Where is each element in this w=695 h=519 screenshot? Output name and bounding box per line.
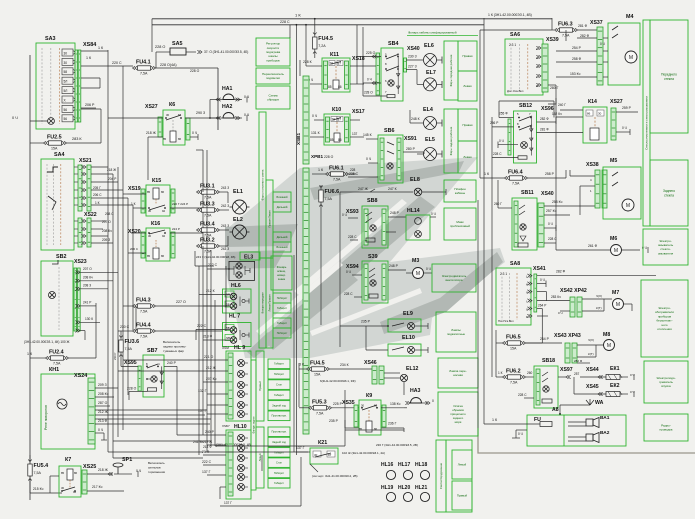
fuse FU5.3 — [314, 406, 327, 410]
svg-text:0 Ч: 0 Ч — [312, 114, 317, 118]
svg-text:ВА2: ВА2 — [600, 430, 610, 436]
wire SB2 208Kч — [81, 280, 114, 282]
connector XS84 — [75, 50, 78, 122]
wire K21 137Г — [296, 451, 310, 453]
wire right bus x492 — [491, 117, 493, 377]
wire SA4 206C — [91, 189, 123, 191]
fuse FU6.5 — [508, 341, 521, 345]
svg-text:Реле поворотов: Реле поворотов — [44, 405, 48, 430]
svg-text:208 Кч: 208 Кч — [102, 229, 112, 233]
wire k6 drop x203 — [202, 150, 204, 192]
wire XS43-M8 — [577, 344, 603, 346]
svg-text:Поборот: Поборот — [274, 471, 285, 475]
svg-text:131 К: 131 К — [311, 131, 320, 135]
svg-text:85: 85 — [359, 427, 363, 431]
fuse FU6.2 — [508, 375, 521, 379]
svg-text:0 Ч: 0 Ч — [136, 469, 141, 473]
fuse FU4.4 — [138, 329, 151, 333]
svg-text:213 Ф: 213 Ф — [98, 419, 108, 423]
fuse FU3.3 — [202, 208, 215, 212]
svg-text:Левый: Левый — [458, 463, 467, 467]
svg-text:К21: К21 — [318, 440, 327, 446]
switch SB8 — [362, 206, 388, 248]
svg-text:НА2: НА2 — [222, 104, 232, 110]
legend fan motor — [432, 264, 476, 292]
legend beam boxes — [273, 192, 291, 202]
svg-text:256 Р: 256 Р — [490, 121, 498, 125]
svg-text:V: V — [526, 291, 528, 295]
wire K7 218Ж — [87, 473, 113, 475]
relay K16 — [146, 228, 170, 261]
wire SA4 218Ж — [91, 166, 108, 168]
contact block SA3 — [62, 49, 73, 56]
wire HL10 20Ф — [203, 454, 226, 456]
wire K10 left 0Ч — [314, 119, 324, 121]
relay K10 — [324, 114, 350, 145]
wire speakers — [568, 421, 586, 423]
svg-text:7,5А: 7,5А — [325, 197, 333, 201]
wire K16 left — [131, 232, 146, 234]
wire SB12 287Ф — [537, 121, 557, 123]
svg-text:XS95: XS95 — [124, 360, 137, 366]
fuse FU2.5 — [49, 141, 62, 145]
svg-text:ЕК2: ЕК2 — [610, 383, 620, 389]
svg-text:XS93: XS93 — [346, 209, 359, 215]
wire SB2 207O — [81, 271, 119, 273]
wire SB11 0Ч — [544, 227, 556, 229]
svg-text:Включатель: Включатель — [163, 340, 181, 344]
svg-text:XS84: XS84 — [83, 42, 96, 48]
svg-text:204 Р: 204 Р — [108, 177, 116, 181]
wire FU2.4 left 1K — [30, 357, 46, 359]
wire SB7 to HL10 link — [176, 400, 178, 435]
svg-text:EL10: EL10 — [402, 335, 415, 341]
svg-text:FU4.5: FU4.5 — [310, 361, 325, 367]
svg-text:FU6.3: FU6.3 — [558, 22, 573, 28]
svg-text:XS40: XS40 — [407, 46, 420, 52]
svg-text:215 Кч: 215 Кч — [33, 487, 44, 491]
svg-text:EL9: EL9 — [403, 311, 413, 317]
svg-text:241 Вх: 241 Вх — [193, 440, 204, 444]
svg-text:Левая: Левая — [463, 84, 472, 88]
wire K6 feed from bus — [108, 117, 140, 119]
switch arm SA4 — [48, 196, 56, 210]
lamp block HL7 — [223, 289, 252, 313]
svg-text:217 Кч: 217 Кч — [92, 485, 103, 489]
svg-text:FU4.4: FU4.4 — [136, 323, 151, 329]
wire K21 137Г bottom loop — [220, 505, 301, 507]
wire HL9 221O — [203, 359, 228, 361]
wire SA4 207O — [91, 228, 103, 230]
wire K11 left 220K — [306, 65, 322, 67]
svg-text:218 Ж: 218 Ж — [146, 131, 157, 135]
legend strip beside license box — [259, 258, 266, 348]
svg-text:вентилятора: вентилятора — [445, 278, 462, 282]
svg-text:282 Ф: 282 Ф — [574, 359, 583, 363]
svg-text:30: 30 — [148, 234, 152, 238]
wire HL8 feed link — [195, 329, 197, 340]
legend dashboard box — [256, 86, 290, 109]
svg-text:228 С: 228 С — [518, 393, 527, 397]
svg-text:30: 30 — [64, 61, 68, 65]
wire FU6.4 right 258P — [527, 177, 566, 179]
wire XS41 V jog — [537, 291, 547, 293]
svg-text:FU6.2: FU6.2 — [506, 369, 521, 375]
svg-text:FU5.4: FU5.4 — [34, 463, 49, 469]
svg-text:SB12: SB12 — [519, 103, 532, 109]
switch SB12 — [514, 111, 537, 163]
svg-text:85: 85 — [147, 254, 151, 258]
svg-text:Пск.Пск.Вкл: Пск.Пск.Вкл — [498, 319, 514, 323]
svg-text:XS91: XS91 — [404, 136, 417, 142]
svg-text:HL14: HL14 — [407, 208, 420, 214]
svg-text:Правая: Правая — [463, 123, 473, 127]
svg-text:255 Ф: 255 Ф — [499, 112, 508, 116]
wire hl10 feeds from left bus — [108, 451, 203, 453]
connector XS23 — [74, 268, 77, 331]
wire SA4 row6 — [91, 204, 133, 206]
wire FU4.3 left — [123, 305, 133, 307]
svg-text:ХSМ: ХSМ — [222, 346, 229, 350]
svg-text:Дальний: Дальний — [277, 235, 288, 239]
wire XS38-M5 pins — [570, 175, 595, 177]
wire XS24 0Ч — [95, 432, 104, 434]
wire XS41 D stub — [537, 315, 548, 317]
fuse FU5.4 — [28, 464, 32, 476]
wire HL7 feed link — [199, 294, 205, 296]
svg-text:261 Ф: 261 Ф — [588, 244, 598, 248]
wire right bus x478 — [477, 200, 479, 428]
svg-text:Противотум.: Противотум. — [271, 414, 286, 418]
wire XS42-M7 — [582, 298, 612, 300]
legend rear lamp strip HL10 — [256, 427, 264, 488]
svg-text:EL1: EL1 — [233, 189, 243, 195]
wire HL6 222C — [207, 268, 234, 270]
watermark emblem — [225, 157, 505, 358]
svg-text:Фары задние рабочие: Фары задние рабочие — [449, 126, 453, 155]
wire FU6.2 right 260 — [525, 376, 534, 378]
svg-text:248 К: 248 К — [411, 117, 420, 121]
wire XS37-M4 282Ф — [603, 37, 608, 39]
legend underhood lamps — [436, 312, 476, 352]
wire FU2.4 right — [68, 357, 96, 359]
wire XS41 0Ч — [537, 283, 546, 285]
svg-text:К(Т): К(Т) — [588, 352, 594, 356]
wire center drop x290 — [289, 25, 291, 38]
wire fu65 left drop — [495, 330, 497, 343]
lamp block HL6 — [229, 261, 255, 280]
svg-text:EL7: EL7 — [426, 70, 436, 76]
svg-text:XS22: XS22 — [84, 212, 97, 218]
wire SA4 1K — [91, 197, 128, 199]
svg-text:7,5А: 7,5А — [512, 182, 520, 186]
svg-text:SB8: SB8 — [367, 198, 378, 204]
wire vertical bus x123 — [122, 66, 124, 430]
svg-text:носная: носная — [453, 373, 463, 377]
svg-text:258 Кч: 258 Кч — [552, 200, 563, 204]
svg-text:HL21: HL21 — [415, 485, 427, 491]
svg-text:HL 7: HL 7 — [229, 314, 240, 320]
wire sa4 to k15 row — [123, 193, 128, 195]
svg-text:HL19: HL19 — [381, 485, 393, 491]
svg-text:5Л: 5Л — [64, 80, 68, 84]
svg-text:XS17: XS17 — [352, 109, 365, 115]
svg-text:XS46: XS46 — [364, 360, 377, 366]
wire FU4.4 left 230C — [118, 330, 133, 332]
switch SB18 — [534, 366, 558, 408]
svg-text:228 О(4А): 228 О(4А) — [160, 63, 177, 67]
svg-text:240 Р: 240 Р — [167, 361, 177, 365]
svg-text:206 Р: 206 Р — [85, 103, 95, 107]
svg-text:XS35: XS35 — [342, 400, 355, 406]
svg-text:Поборот: Поборот — [274, 372, 285, 376]
wire K6 right 0Ч — [190, 136, 198, 138]
legend front work lights — [444, 41, 458, 100]
svg-text:Заднего: Заднего — [663, 189, 675, 193]
svg-text:FU6.6: FU6.6 — [325, 189, 340, 195]
svg-text:(3Н1-42.00.000ЭЗ.1, 4К) 100 Ж: (3Н1-42.00.000ЭЗ.1, 4К) 100 Ж — [24, 340, 70, 344]
svg-text:HL20: HL20 — [398, 485, 410, 491]
svg-text:ХSБ7: ХSБ7 — [222, 424, 230, 428]
svg-text:Левый: Левый — [258, 453, 262, 461]
wire SA4 205Г — [91, 181, 118, 183]
svg-text:138 Кч: 138 Кч — [390, 402, 401, 406]
svg-text:259 Р: 259 Р — [622, 106, 632, 110]
svg-text:XS40: XS40 — [541, 191, 554, 197]
svg-text:Противотум.: Противотум. — [271, 430, 286, 434]
handle symbol SA4 — [47, 167, 58, 172]
svg-text:SB6: SB6 — [384, 128, 395, 134]
svg-text:234 К: 234 К — [340, 363, 349, 367]
wire horn branch — [209, 100, 211, 119]
svg-text:152 Кч: 152 Кч — [552, 112, 562, 116]
svg-text:1 К: 1 К — [95, 201, 100, 205]
wire HL8 222C — [196, 328, 230, 330]
fuse FU3.2 — [202, 244, 215, 248]
svg-text:243 З: 243 З — [221, 247, 229, 251]
wire FU3.6 v — [120, 331, 122, 340]
svg-text:XS19: XS19 — [128, 186, 141, 192]
svg-text:235 Р: 235 Р — [361, 320, 371, 324]
wire FU5.4 top — [29, 455, 31, 462]
wire SB8 248P — [388, 216, 406, 218]
svg-text:230 С: 230 С — [120, 325, 130, 329]
wire FU4.5 right 234K — [329, 368, 372, 370]
svg-text:243 3 (3Н1-42.00.000ЭЗ, 4Б): 243 3 (3Н1-42.00.000ЭЗ, 4Б) — [196, 255, 235, 259]
svg-text:отопления: отопления — [657, 327, 672, 331]
svg-text:К11: К11 — [330, 52, 339, 58]
svg-text:85: 85 — [330, 138, 334, 142]
switch SB4 — [381, 48, 403, 101]
legend intake heater — [644, 361, 688, 403]
svg-text:SB2: SB2 — [56, 254, 67, 260]
wire XS84 stub 56a — [81, 107, 96, 109]
svg-text:FU4.5: FU4.5 — [318, 36, 333, 42]
svg-text:228 К: 228 К — [303, 60, 312, 64]
svg-text:241 Р: 241 Р — [83, 301, 91, 305]
svg-text:Габарит: Габарит — [274, 481, 284, 485]
svg-text:85: 85 — [147, 190, 151, 194]
svg-text:0 Ч: 0 Ч — [342, 213, 347, 217]
connector XS24 — [88, 378, 95, 444]
svg-text:1 К: 1 К — [498, 371, 503, 375]
svg-text:кабины: кабины — [455, 191, 465, 195]
relay K11 — [322, 58, 350, 92]
svg-text:242 З: 242 З — [221, 204, 229, 208]
svg-text:подсветки: подсветки — [266, 76, 280, 80]
legend beacon — [444, 208, 476, 240]
svg-text:0: 0 — [432, 399, 434, 403]
svg-text:86: 86 — [74, 471, 78, 475]
wire XS24 208Kч — [95, 396, 114, 398]
relay K15 — [146, 185, 170, 216]
wire XS37-M4 258Ф — [556, 61, 597, 63]
svg-text:Л/Б: Л/Б — [226, 336, 231, 340]
wire center vertical x300 — [299, 60, 301, 76]
svg-text:218 Ж: 218 Ж — [107, 168, 116, 172]
svg-text:FU6.4: FU6.4 — [508, 170, 523, 176]
wire vertical bus x128 — [127, 198, 129, 395]
svg-text:(см.черт. 3Н1-41.00.000ЭЗ.2, 2: (см.черт. 3Н1-41.00.000ЭЗ.2, 2В) — [312, 474, 358, 478]
svg-text:280 Г: 280 Г — [550, 86, 559, 90]
wire K10 right — [350, 119, 360, 121]
svg-text:228 С: 228 С — [344, 292, 353, 296]
svg-text:Правый: Правый — [457, 494, 468, 498]
wire vertical bus x113 — [112, 174, 114, 458]
fuse FU4.2 — [313, 37, 317, 49]
svg-text:Дальний: Дальний — [277, 205, 288, 209]
svg-text:228: 228 — [350, 168, 356, 172]
svg-text:SB4: SB4 — [388, 41, 399, 47]
svg-text:56: 56 — [64, 108, 68, 112]
wire K9 right 236Г — [381, 427, 404, 429]
wire SB7 240P — [164, 365, 177, 367]
wire HL9 212Ж — [203, 370, 228, 372]
svg-text:260: 260 — [527, 371, 533, 375]
svg-text:5Л: 5Л — [64, 89, 68, 93]
svg-text:Габарит: Габарит — [277, 321, 288, 325]
wire K14 left 240Г — [560, 109, 583, 111]
svg-text:30: 30 — [598, 112, 602, 116]
svg-text:Ближний: Ближний — [276, 245, 288, 249]
wire EL2 feed — [219, 229, 229, 231]
legend switch light box — [256, 68, 290, 84]
svg-text:258 Р: 258 Р — [545, 172, 555, 176]
wire XS84 stub 58L — [81, 87, 100, 89]
wire SB8 0Ч left — [348, 217, 358, 219]
wire SB4 225O — [357, 56, 381, 58]
svg-text:7,5А: 7,5А — [140, 335, 148, 339]
svg-text:248 Р: 248 Р — [390, 211, 400, 215]
wire SA6 down 280Г — [548, 98, 556, 104]
switch SA3 — [36, 43, 75, 129]
svg-text:206 С: 206 С — [93, 193, 102, 197]
svg-text:XS27: XS27 — [610, 99, 623, 105]
wire XS37-M4 254P — [556, 50, 597, 52]
wire FU4.4 right 227C — [155, 330, 222, 332]
wire FU2.5 left — [30, 142, 44, 144]
legend license plate lamp box — [271, 256, 292, 290]
svg-text:137: 137 — [352, 132, 358, 136]
svg-text:7,2А: 7,2А — [318, 44, 326, 48]
wire K11 left 0Ч — [310, 83, 322, 85]
fuse FU6.3 — [560, 28, 573, 32]
svg-text:281 Ф: 281 Ф — [540, 127, 549, 131]
wire XS84 206P — [81, 108, 101, 110]
svg-text:К6: К6 — [169, 102, 175, 108]
svg-text:248 Р: 248 Р — [389, 264, 399, 268]
wire K15 left — [128, 193, 146, 195]
svg-text:86: 86 — [161, 190, 165, 194]
svg-text:FU4.3: FU4.3 — [136, 298, 151, 304]
connector XS39 — [542, 44, 548, 92]
fuse FU6.6 — [319, 190, 323, 202]
svg-text:264 Р: 264 Р — [538, 303, 546, 307]
legend rear glass — [650, 160, 688, 226]
svg-text:М: М — [614, 248, 618, 254]
wire K10 left 131K — [310, 136, 324, 138]
switch SB2 — [41, 261, 73, 336]
svg-text:228 С: 228 С — [493, 152, 502, 156]
svg-text:XS45: XS45 — [586, 384, 599, 390]
legend rear lamp labels HL10 — [268, 427, 290, 437]
svg-text:7,5А: 7,5А — [140, 310, 148, 314]
svg-text:омывателя: омывателя — [658, 251, 674, 255]
wire SB12 255Ф — [499, 117, 514, 119]
svg-text:XS38: XS38 — [586, 162, 599, 168]
svg-text:КН1: КН1 — [49, 367, 59, 373]
svg-text:30: 30 — [61, 486, 65, 490]
wire HL9 stub6 — [207, 413, 228, 415]
svg-text:ХРВ1: ХРВ1 — [311, 154, 323, 159]
wire K7 217Kч — [87, 490, 124, 492]
wire K9 coil 235P — [345, 427, 359, 429]
svg-text:222 С: 222 С — [202, 460, 212, 464]
fuse FU3.6 — [119, 340, 123, 352]
svg-text:7,5А: 7,5А — [204, 196, 212, 200]
svg-text:U: U — [526, 308, 528, 312]
wire K9 right 138Kч — [381, 407, 404, 409]
svg-text:проблесковый: проблесковый — [450, 224, 470, 228]
relay K6 — [163, 110, 185, 145]
svg-text:XS41: XS41 — [533, 266, 546, 272]
wire mid vertical bus x207 — [206, 150, 208, 452]
svg-text:56: 56 — [64, 117, 68, 121]
svg-text:236 Г: 236 Г — [388, 422, 397, 426]
svg-text:XS37: XS37 — [590, 20, 603, 26]
svg-text:FU6.1: FU6.1 — [329, 166, 344, 172]
svg-text:М: М — [629, 55, 633, 61]
wire SB11 258Kч — [544, 205, 595, 207]
svg-text:0 Ч: 0 Ч — [499, 139, 504, 143]
svg-text:Правая Левая: Правая Левая — [267, 210, 271, 228]
resistor SB12 bottom — [518, 156, 527, 159]
wire SA4 208C — [91, 220, 106, 222]
wire right bus x480 — [479, 30, 481, 178]
svg-text:287 О: 287 О — [98, 401, 108, 405]
svg-text:XS27: XS27 — [145, 104, 158, 110]
wire HL10 137Г — [207, 474, 226, 476]
svg-text:М3: М3 — [412, 258, 419, 264]
svg-text:208 Кч: 208 Кч — [83, 276, 93, 280]
svg-text:208 Кч: 208 Кч — [98, 392, 109, 396]
wire K7 coil left — [50, 475, 59, 477]
svg-text:230 З: 230 З — [408, 55, 417, 59]
svg-text:153 Кч: 153 Кч — [570, 72, 581, 76]
wire FU5.3 right 225P — [331, 407, 359, 409]
wire SB12 256P — [492, 126, 514, 128]
svg-text:H: H — [526, 283, 528, 287]
